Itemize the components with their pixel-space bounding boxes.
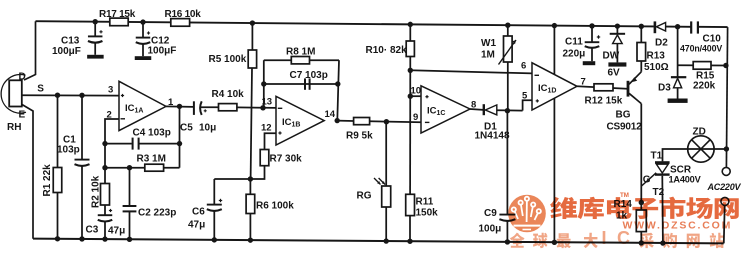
svg-text:220μ: 220μ [563, 49, 586, 60]
svg-text:R6 100k: R6 100k [256, 201, 294, 212]
svg-text:R3 1M: R3 1M [137, 154, 166, 165]
svg-text:DW: DW [603, 51, 620, 62]
svg-text:10: 10 [411, 86, 422, 97]
svg-text:12: 12 [261, 123, 272, 134]
svg-text:3: 3 [108, 85, 113, 96]
svg-text:1A400V: 1A400V [669, 175, 702, 185]
svg-text:D3: D3 [658, 83, 671, 94]
svg-text:C5: C5 [180, 123, 193, 134]
svg-text:6: 6 [521, 61, 526, 72]
svg-text:5: 5 [522, 91, 528, 102]
svg-text:R13: R13 [647, 51, 666, 62]
svg-text:100μF: 100μF [148, 46, 177, 57]
svg-text:D2: D2 [655, 38, 668, 49]
svg-text:C3: C3 [86, 225, 99, 236]
svg-text:T2: T2 [653, 187, 665, 198]
svg-text:RG: RG [357, 191, 372, 202]
svg-text:1N4148: 1N4148 [475, 131, 510, 142]
svg-text:C2 223p: C2 223p [138, 208, 176, 219]
svg-text:R12 15k: R12 15k [585, 96, 623, 107]
svg-text:47μ: 47μ [188, 220, 205, 231]
svg-text:1M: 1M [481, 50, 495, 61]
svg-text:6V: 6V [608, 68, 621, 79]
svg-text:BG: BG [616, 110, 631, 121]
svg-text:C4 103p: C4 103p [133, 128, 171, 139]
svg-text:100μF: 100μF [52, 46, 81, 57]
svg-text:220k: 220k [693, 81, 716, 92]
svg-text:T1: T1 [651, 151, 663, 162]
svg-text:510Ω: 510Ω [644, 62, 669, 73]
svg-text:470n/400V: 470n/400V [680, 44, 722, 54]
svg-text:14: 14 [325, 109, 336, 120]
svg-text:13: 13 [262, 97, 273, 108]
svg-text:W1: W1 [481, 38, 496, 49]
svg-text:150k: 150k [416, 208, 439, 219]
svg-text:R1 22k: R1 22k [42, 164, 53, 197]
svg-text:CS9012: CS9012 [607, 122, 643, 133]
svg-text:R7 30k: R7 30k [270, 154, 303, 165]
svg-text:R9 5k: R9 5k [346, 131, 373, 142]
svg-text:9: 9 [413, 112, 418, 123]
svg-text:C: C [617, 228, 630, 248]
svg-text:C9: C9 [484, 208, 497, 219]
svg-text:R17 15k: R17 15k [99, 9, 136, 20]
svg-text:R8 1M: R8 1M [286, 47, 315, 58]
svg-text:R4 10k: R4 10k [212, 89, 245, 100]
svg-text:100μ: 100μ [479, 224, 502, 235]
svg-text:R16 10k: R16 10k [165, 9, 202, 20]
svg-text:C6: C6 [192, 207, 205, 218]
svg-text:D: D [19, 72, 26, 83]
svg-text:R11: R11 [416, 197, 434, 208]
svg-text:S: S [37, 84, 44, 95]
svg-text:RH: RH [7, 122, 21, 133]
svg-text:10μ: 10μ [199, 123, 216, 134]
svg-text:R5 100k: R5 100k [209, 54, 247, 65]
svg-text:C13: C13 [61, 36, 80, 47]
svg-text:2: 2 [107, 110, 112, 121]
svg-text:E: E [19, 110, 26, 121]
svg-text:AC220V: AC220V [707, 182, 742, 192]
svg-text:47μ: 47μ [108, 226, 125, 237]
svg-text:R2 10k: R2 10k [91, 175, 102, 208]
svg-text:ZD: ZD [693, 127, 706, 138]
svg-text:TM: TM [620, 192, 629, 199]
svg-text:C7 103p: C7 103p [290, 70, 328, 81]
svg-text:R10· 82k: R10· 82k [366, 45, 408, 56]
svg-text:WWW.DZSC.COM: WWW.DZSC.COM [623, 220, 733, 232]
svg-text:103p: 103p [57, 145, 80, 156]
svg-text:I: I [601, 228, 606, 248]
svg-text:C11: C11 [565, 37, 583, 48]
svg-text:G: G [643, 175, 651, 186]
